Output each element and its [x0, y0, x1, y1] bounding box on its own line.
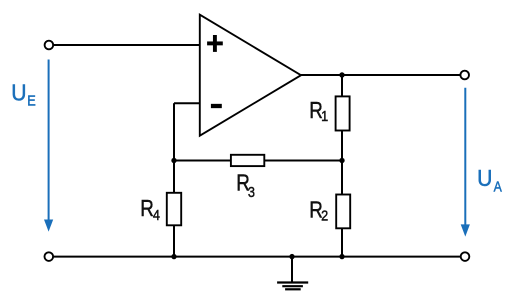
svg-text:R: R	[140, 197, 154, 222]
svg-text:2: 2	[321, 206, 328, 223]
svg-text:4: 4	[153, 206, 160, 223]
svg-text:E: E	[27, 92, 36, 109]
svg-text:U: U	[477, 165, 492, 191]
svg-text:A: A	[494, 178, 503, 194]
svg-text:U: U	[11, 80, 26, 106]
svg-text:3: 3	[248, 183, 255, 200]
svg-text:1: 1	[321, 107, 328, 124]
